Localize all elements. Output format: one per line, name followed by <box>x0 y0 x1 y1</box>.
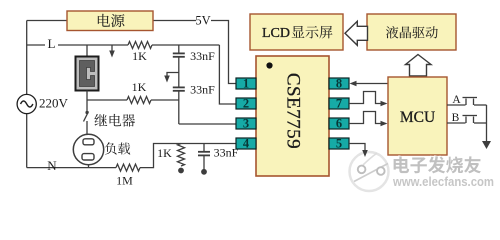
capacitor C 33nF (lower) <box>173 86 185 88</box>
svg-text:33nF: 33nF <box>190 83 215 97</box>
tap arrow between caps <box>167 73 179 78</box>
AC source 220V <box>17 94 36 113</box>
wire: middle sense line to caps column <box>87 99 127 101</box>
svg-text:220V: 220V <box>39 96 69 111</box>
svg-text:A: A <box>452 94 461 106</box>
svg-text:4: 4 <box>243 137 250 151</box>
current sensor stub top <box>86 45 88 57</box>
svg-text:LCD: LCD <box>262 26 290 41</box>
svg-text:1K: 1K <box>132 80 147 94</box>
svg-text:L: L <box>48 36 56 51</box>
svg-text:3: 3 <box>243 117 249 131</box>
pin 7 (right) <box>329 98 349 109</box>
pin 4 (left) <box>236 138 256 149</box>
pin1 marker dot <box>266 62 272 68</box>
wire: left rail upper (to AC source) <box>26 21 28 95</box>
svg-text:www.elecfans.com: www.elecfans.com <box>392 174 494 189</box>
current direction arrow on L line <box>111 45 113 53</box>
capacitor C 33nF (upper) <box>173 52 185 54</box>
relay contact <box>86 100 88 111</box>
wire: sensor bottom to junction <box>86 91 88 101</box>
svg-text:2: 2 <box>243 97 249 111</box>
label relay 继电器 <box>94 114 135 127</box>
wire: pin5 down arrow <box>349 144 365 153</box>
label L <box>45 36 58 47</box>
pin 6 (right) <box>329 118 349 129</box>
wire: pin6 to MCU (pulse + arrow) <box>349 112 382 124</box>
watermark text 电子发烧友 <box>392 155 481 173</box>
svg-text:6: 6 <box>336 117 342 131</box>
load (socket) <box>73 134 103 164</box>
pin 8 (right) <box>329 78 349 89</box>
resistor R 1K (middle sense line) <box>127 97 151 104</box>
svg-text:1M: 1M <box>116 174 133 188</box>
svg-text:CSE7759: CSE7759 <box>283 73 304 149</box>
svg-text:5V: 5V <box>195 14 210 28</box>
pin 2 (left) <box>236 98 256 109</box>
wire: load to N line <box>88 165 90 168</box>
label N <box>44 157 59 167</box>
LCD driver box 液晶驱动 <box>367 14 456 50</box>
wire: left rail lower (AC source to N) <box>26 113 28 168</box>
watermark text www.elecfans.com <box>391 173 494 189</box>
wire: pin7 to MCU (pulse + arrow) <box>349 92 382 104</box>
LCD display box LCD显示屏 <box>250 14 343 50</box>
svg-text:33nF: 33nF <box>190 49 215 63</box>
wire: 5V to pin1 corner <box>211 21 236 84</box>
IC U1 CSE7759 <box>256 56 329 176</box>
key B <box>447 122 466 124</box>
svg-text:B: B <box>452 112 460 124</box>
wire: 5V line from power box <box>153 20 196 22</box>
pin 1 (left) <box>236 78 256 89</box>
label load 负载 <box>105 142 130 154</box>
resistor R 1M (N line) <box>116 164 140 171</box>
wire: N line corner up to pin4 row <box>140 144 236 168</box>
pin 5 (right) <box>329 138 349 149</box>
wire: caps column to pin3 <box>179 123 236 125</box>
hollow arrow: MCU to driver <box>406 55 432 77</box>
resistor R 1K (L line) <box>128 42 152 49</box>
MCU box <box>388 77 447 155</box>
wire: power box left to left rail <box>27 20 67 22</box>
svg-text:5: 5 <box>336 137 342 151</box>
ground arrow <box>482 141 491 149</box>
svg-text:7: 7 <box>336 97 342 111</box>
hollow arrow: driver to LCD <box>345 21 368 45</box>
svg-text:MCU: MCU <box>400 109 435 126</box>
wire: keys to ground rail <box>486 105 488 142</box>
svg-text:1K: 1K <box>157 146 172 160</box>
svg-text:1K: 1K <box>132 49 147 63</box>
svg-text:N: N <box>47 158 57 173</box>
wire: N line <box>27 167 116 169</box>
power supply box 电源 <box>67 11 153 31</box>
key A <box>447 104 466 106</box>
resistor R 1K vertical (divider) <box>178 144 185 167</box>
pin 3 (left) <box>236 118 256 129</box>
current sensor (shunt) <box>76 57 99 91</box>
wire: L sense to pin2 <box>219 45 236 104</box>
svg-text:8: 8 <box>336 77 342 91</box>
caps column top segment <box>178 45 180 53</box>
wire: L line <box>27 44 128 46</box>
wire: MCU to pin8 (arrow left) <box>355 83 388 85</box>
watermark logo <box>350 152 389 191</box>
capacitor 33nF (divider) <box>203 144 205 152</box>
svg-text:33nF: 33nF <box>214 146 239 160</box>
svg-text:1: 1 <box>243 77 249 91</box>
